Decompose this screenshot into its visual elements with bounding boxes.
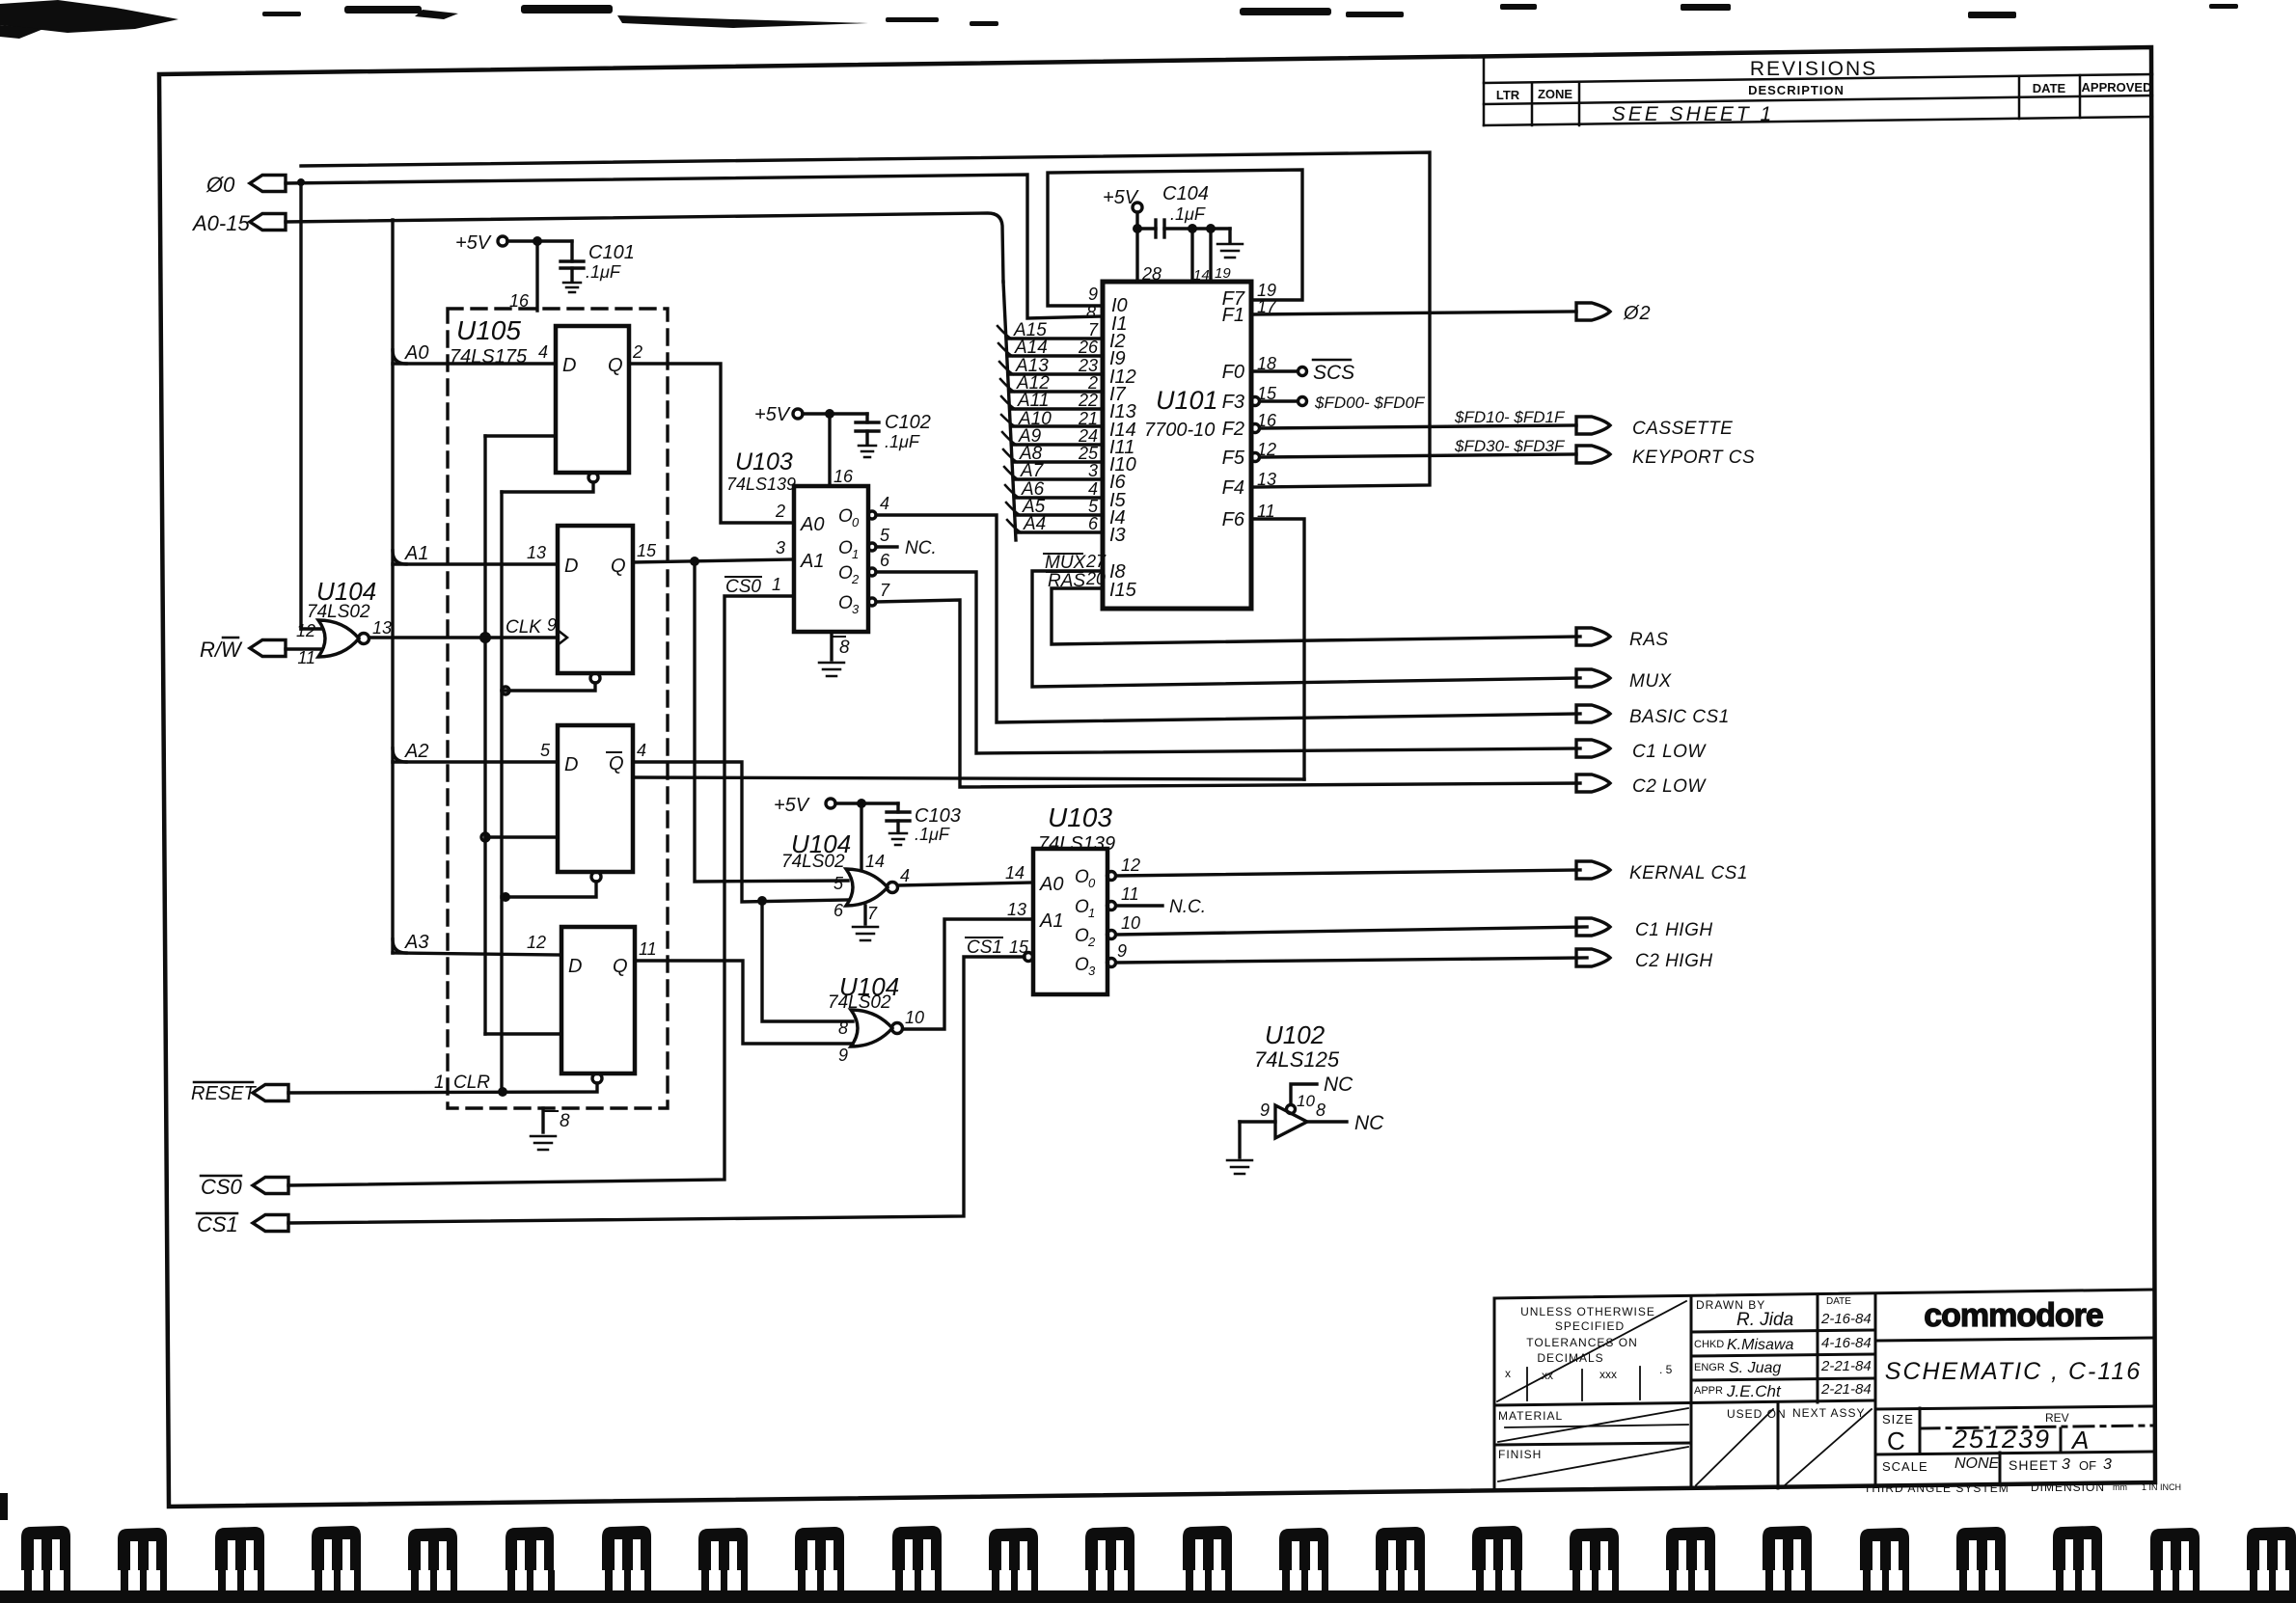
scan artifact: left edge tick [0,1493,8,1520]
ground U103a pin8 [830,632,833,660]
svg-text:A0-15: A0-15 [191,211,250,235]
svg-text:.1μF: .1μF [1170,204,1206,224]
wire +5V to U104 pin14 [860,803,862,869]
svg-text:A1: A1 [404,543,428,564]
svg-text:20: 20 [1085,569,1106,588]
svg-text:+5V: +5V [455,232,492,254]
output flag KERNAL CS1 [1576,861,1610,879]
svg-text:74LS139: 74LS139 [1038,833,1115,855]
svg-text:4: 4 [1088,479,1098,499]
sheet border frame [159,47,2155,1507]
wire A3 to FF4 D [393,953,561,955]
material finish labels [1498,1406,1865,1461]
svg-text:4: 4 [880,494,889,513]
svg-text:. 5: . 5 [1659,1363,1673,1376]
svg-text:REVISIONS: REVISIONS [1750,58,1877,80]
svg-text:commodore: commodore [1924,1297,2103,1334]
clock mark FF2 [559,631,567,644]
output flag RAS [1576,628,1610,645]
svg-text:.1μF: .1μF [915,825,950,844]
node A11 [1001,396,1015,409]
wire CS1 to U103b pin15 [288,957,1025,1223]
svg-text:SEE SHEET 1: SEE SHEET 1 [1612,103,1774,125]
svg-text:13: 13 [1257,470,1276,489]
node A2 [393,748,406,762]
scan artifact: top dashes [262,12,301,16]
wire F6 down [1251,519,1304,779]
wire CLK [369,636,558,638]
wire branch to U104 pin8 [762,901,853,1021]
wire A1 to FF2 D [393,562,558,565]
svg-text:NEXT ASSY: NEXT ASSY [1792,1406,1865,1420]
svg-text:CS1: CS1 [967,937,1002,958]
svg-text:4: 4 [900,866,910,885]
binding clip 16 [1472,1526,1522,1570]
decoder U103a [794,486,868,632]
svg-text:3: 3 [852,602,860,616]
svg-text:CLK: CLK [506,617,542,638]
svg-text:13: 13 [1007,900,1026,919]
svg-text:13: 13 [372,618,392,638]
node A1 [393,551,406,564]
svg-text:SCALE: SCALE [1882,1459,1928,1474]
wire output pin8 NC [1307,1120,1347,1123]
svg-text:0: 0 [1088,876,1096,890]
wire O3 C2 HIGH [1107,959,1116,967]
junction FF3 net to U104 pin8 [757,896,767,906]
wire F1 PHI2 [1251,312,1576,314]
binding clip 13 [1183,1526,1232,1570]
svg-text:8: 8 [1086,303,1096,322]
binding clip 11 [989,1528,1038,1570]
svg-text:21: 21 [1078,409,1098,428]
wire PHI0 to U101 I1 [286,175,1103,318]
svg-text:Q: Q [609,753,624,774]
output flag C1 HIGH [1576,918,1610,936]
input flag A0-15 [250,214,286,231]
binding clip 22 [2053,1526,2102,1570]
svg-text:K.Misawa: K.Misawa [1727,1337,1793,1353]
decoder U103b [1033,849,1107,994]
svg-text:$FD30- $FD3F: $FD30- $FD3F [1454,437,1566,455]
svg-text:5: 5 [880,526,890,545]
svg-text:9: 9 [547,615,557,635]
wire R/W to U104 pin11 [286,647,322,650]
wire address ladder spine [1003,282,1016,540]
svg-text:REV: REV [2045,1411,2069,1425]
bubble rail [500,492,503,1092]
wire FF3 Qbar to U104 pin6 [633,762,848,902]
svg-text:O: O [838,593,853,613]
wire FF1 Q to U103a A0 [629,364,794,523]
svg-text:9: 9 [1117,941,1127,961]
binding clip 24 [2247,1527,2296,1570]
svg-text:I15: I15 [1109,580,1137,601]
svg-text:11: 11 [1121,884,1139,904]
svg-text:C103: C103 [915,805,961,827]
node A15 [998,326,1011,339]
svg-text:6: 6 [1088,514,1099,533]
ground C103 [889,832,907,835]
svg-text:xxx: xxx [1599,1368,1617,1381]
wire A0-15 bus [286,213,1003,282]
output flag CASSETTE [1576,417,1610,434]
svg-text:2: 2 [1087,935,1096,949]
svg-text:NC: NC [1324,1073,1353,1096]
capacitor C103 [896,803,899,812]
wire MUX output [1032,571,1580,687]
wire FF2 bubble to rail [502,683,595,691]
svg-text:9: 9 [1260,1100,1270,1120]
wire +5V to U105 pin16 [535,241,538,311]
svg-text:8: 8 [839,638,850,658]
input flag CS0 [253,1178,288,1194]
svg-text:11: 11 [297,648,315,667]
wire O1 NC [868,543,876,551]
output flag C1 LOW [1576,740,1610,757]
svg-text:A1: A1 [1039,910,1063,932]
svg-text:USED ON: USED ON [1727,1407,1787,1421]
drawn by block [1694,1296,1872,1400]
svg-text:RESET: RESET [191,1083,257,1104]
svg-text:22: 22 [1078,391,1098,410]
svg-text:19: 19 [1215,265,1231,282]
svg-text:LTR: LTR [1496,88,1520,102]
svg-text:24: 24 [1078,426,1098,446]
wire F7 to I0 loop [1048,170,1302,306]
node A8 [1003,449,1017,462]
svg-text:C1 HIGH: C1 HIGH [1635,920,1713,940]
node A7 [1004,467,1018,479]
svg-text:D: D [568,956,582,977]
buffer U102 [1275,1105,1307,1138]
ground U105 pin8 [541,1108,544,1132]
svg-text:MUX: MUX [1629,671,1673,692]
svg-text:SPECIFIED: SPECIFIED [1555,1319,1625,1333]
svg-text:S. Juag: S. Juag [1729,1360,1781,1376]
svg-text:U102: U102 [1265,1020,1326,1049]
wire FF4 clock stub [485,1032,561,1035]
wire RAS output [1052,588,1580,644]
svg-text:Ø0: Ø0 [205,173,235,197]
svg-text:2: 2 [851,572,860,586]
wire F2 CASSETTE [1251,424,1260,433]
wire FF1 bubble to rail [502,482,593,492]
output flag KEYPORT CS [1576,446,1610,463]
svg-text:SHEET: SHEET [2009,1457,2059,1473]
svg-text:0: 0 [852,515,860,530]
node A5 [1006,503,1020,515]
binding clip 2 [118,1528,167,1570]
output flag MUX [1576,669,1610,687]
wire O0 to BASIC CS1 [868,511,876,519]
wire C104 pins 28 14 19 [1135,233,1138,282]
svg-text:$FD00- $FD0F: $FD00- $FD0F [1314,394,1426,412]
svg-text:27: 27 [1085,552,1107,571]
svg-text:74LS125: 74LS125 [1254,1047,1340,1072]
junction CLK [479,632,491,643]
svg-text:O: O [1075,867,1089,887]
wire F0 SCS [1251,369,1298,372]
tolerance note [1505,1305,1673,1382]
binding clip 4 [312,1526,361,1570]
svg-text:O: O [1075,897,1089,917]
input flag RESET [253,1085,288,1101]
wire input pin9 [1240,1120,1275,1123]
svg-text:FINISH: FINISH [1498,1448,1542,1461]
svg-text:CASSETTE: CASSETTE [1632,419,1733,439]
node A14 [998,343,1012,356]
svg-text:NONE: NONE [1954,1455,2000,1472]
svg-text:8: 8 [560,1111,570,1131]
binding clip 23 [2150,1528,2200,1570]
svg-text:5: 5 [1088,497,1099,516]
svg-text:A3: A3 [404,932,428,953]
binding clip 5 [408,1528,457,1570]
svg-text:4-16-84: 4-16-84 [1821,1335,1872,1351]
node A10 [1001,415,1015,426]
svg-text:.1μF: .1μF [885,432,920,451]
binding clip 6 [506,1527,554,1570]
svg-text:9: 9 [838,1046,848,1065]
svg-text:8: 8 [1316,1100,1326,1120]
nor-gate U104d [851,1010,892,1046]
binding clip 15 [1376,1527,1425,1570]
binding clip 12 [1085,1527,1134,1570]
wire O3 to C2 LOW [868,598,876,606]
wire U104b out to U103b A0 [898,883,1033,885]
svg-text:Q: Q [613,956,628,977]
svg-text:O: O [838,538,853,558]
nor-gate U104c [318,620,359,657]
svg-text:$FD10- $FD1F: $FD10- $FD1F [1454,408,1566,426]
svg-text:CHKD: CHKD [1694,1339,1724,1350]
svg-text:KERNAL CS1: KERNAL CS1 [1629,863,1748,883]
output flag C2 LOW [1576,774,1610,792]
capacitor C104 [1137,227,1156,230]
svg-text:J.E.Cht: J.E.Cht [1726,1382,1782,1400]
svg-text:UNLESS OTHERWISE: UNLESS OTHERWISE [1520,1305,1655,1318]
wire +5V to U103a pin16 [828,414,831,486]
svg-text:C: C [1887,1426,1905,1455]
svg-text:6: 6 [880,551,890,570]
wire RESET / CLR [288,1083,597,1093]
wire CS0 to U103a pin1 [288,596,794,1185]
wire PHI2 riser into pin12 [301,627,321,630]
svg-text:Ø2: Ø2 [1623,303,1652,324]
svg-text:4: 4 [637,741,646,760]
svg-text:THIRD ANGLE SYSTEM: THIRD ANGLE SYSTEM [1864,1481,2009,1495]
svg-text:14: 14 [1005,863,1025,883]
svg-text:O: O [1075,955,1089,975]
svg-text:F4: F4 [1222,477,1244,499]
input flag R/W [250,640,286,657]
svg-text:10: 10 [1121,913,1140,933]
binding clip 19 [1763,1526,1812,1570]
node A12 [1000,379,1014,392]
svg-text:+5V: +5V [754,404,791,425]
svg-text:D: D [562,355,576,376]
junction FF2 Q branch [690,557,699,566]
svg-text:CS0: CS0 [201,1175,243,1199]
svg-text:ENGR: ENGR [1694,1362,1725,1373]
wire PHI2 top run (F4 loop) [301,152,1430,487]
svg-text:28: 28 [1141,264,1162,284]
binding clip 17 [1570,1528,1619,1570]
binding clip 1 [21,1526,70,1570]
IC U101 body [1103,282,1251,609]
binding clip 9 [795,1527,844,1570]
svg-text:NC.: NC. [905,538,937,558]
svg-text:CLR: CLR [453,1073,490,1093]
junction CLR rail [498,1087,507,1097]
junction PHI0 riser [297,178,305,186]
output flag PHI2 [1576,303,1610,320]
flip-flop U105c [558,725,633,872]
svg-text:2: 2 [775,502,785,521]
spiral binding strip [0,1526,2296,1603]
svg-text:7700-10: 7700-10 [1144,420,1215,441]
svg-text:7: 7 [880,581,890,600]
svg-text:TOLERANCES ON: TOLERANCES ON [1526,1336,1637,1349]
ground U104b pin7 [863,906,866,924]
svg-text:RAS: RAS [1629,630,1669,650]
output flag BASIC CS1 [1576,705,1610,722]
svg-text:Q: Q [608,355,623,376]
input flag CS1 [253,1215,288,1232]
wire FF4 Q to U104 pin9 [635,961,853,1044]
binding clip 10 [892,1526,942,1570]
U105 dashed outline [448,309,668,1108]
svg-text:KEYPORT CS: KEYPORT CS [1632,448,1755,468]
svg-text:14: 14 [1193,267,1210,284]
svg-text:14: 14 [865,852,885,871]
wire O1 NC [1107,902,1116,910]
svg-text:3: 3 [2103,1456,2112,1473]
flip-flop U105b [558,526,633,673]
svg-text:1: 1 [772,575,781,594]
svg-text:APPROVED: APPROVED [2082,80,2152,95]
svg-text:12: 12 [1121,856,1140,875]
svg-text:4: 4 [538,342,548,362]
svg-text:C101: C101 [588,242,635,263]
capacitor C102 [865,414,868,422]
svg-text:12: 12 [296,621,315,640]
svg-text:10: 10 [1297,1092,1315,1110]
svg-text:SIZE: SIZE [1882,1412,1914,1426]
svg-text:A7: A7 [1020,461,1045,481]
svg-text:7: 7 [1088,320,1099,340]
size and number row [1864,1411,2181,1495]
svg-text:C2 HIGH: C2 HIGH [1635,951,1713,971]
svg-text:8: 8 [838,1019,848,1038]
svg-text:13: 13 [527,543,546,562]
svg-text:ZONE: ZONE [1538,87,1572,101]
bus riser A0-A3 [391,220,394,953]
svg-text:CS0: CS0 [725,577,761,597]
wire enable pin10 NC [1287,1105,1296,1114]
svg-text:A: A [2070,1426,2089,1454]
svg-text:10: 10 [905,1008,924,1027]
node A3 [393,939,406,953]
wire O2 to C1 LOW [868,568,876,576]
svg-text:A4: A4 [1023,514,1046,534]
svg-text:11: 11 [639,939,657,959]
svg-text:1: 1 [434,1073,445,1093]
svg-text:3: 3 [2062,1456,2070,1473]
wire F3 FD00 [1251,397,1260,406]
node A4 [1007,520,1021,532]
svg-text:74LS02: 74LS02 [781,852,845,872]
ground C101 [563,282,581,285]
svg-text:A0: A0 [404,342,428,364]
svg-text:7: 7 [867,904,878,923]
svg-text:A11: A11 [1017,391,1049,411]
svg-text:U105: U105 [456,315,521,345]
svg-text:OF: OF [2079,1458,2096,1473]
svg-text:251239: 251239 [1952,1425,2051,1454]
svg-text:F5: F5 [1222,448,1245,469]
svg-text:12: 12 [527,933,546,952]
binding clip 20 [1860,1528,1909,1570]
svg-text:NC: NC [1354,1112,1384,1134]
svg-text:SCS: SCS [1313,362,1354,384]
svg-text:DESCRIPTION: DESCRIPTION [1748,83,1845,97]
output flag C2 HIGH [1576,949,1610,966]
wire U104d out to U103b A1 [903,919,1033,1029]
svg-text:U103: U103 [735,448,793,475]
node A13 [999,362,1013,374]
svg-text:9: 9 [1088,285,1098,304]
junction FF3 clock stub [481,833,489,841]
binding clip 18 [1666,1527,1715,1570]
svg-text:R/W: R/W [200,638,243,662]
revisions table frame [1484,56,2152,125]
svg-text:APPR: APPR [1694,1385,1723,1397]
svg-text:D: D [564,556,578,577]
svg-text:I3: I3 [1109,525,1126,546]
input flag PHI0 [250,176,286,192]
svg-text:F3: F3 [1222,392,1244,413]
svg-text:16: 16 [834,467,854,486]
node A9 [1002,432,1016,445]
svg-text:SCHEMATIC , C-116: SCHEMATIC , C-116 [1885,1358,2142,1385]
wire F5 KEYPORT [1251,453,1260,462]
wire PHI0 riser down to U104 pin12 [299,182,302,629]
svg-text:R. Jida: R. Jida [1736,1310,1793,1330]
wire A0 to FF1 D [393,362,556,365]
ground C104 [1228,229,1231,242]
wire FF3 clock stub [485,835,558,838]
svg-text:26: 26 [1078,338,1099,357]
svg-text:CS1: CS1 [197,1212,238,1236]
svg-text:C104: C104 [1162,183,1209,204]
svg-text:mm: mm [2113,1482,2127,1492]
wire FF2 Q to U103a A1 [633,559,794,562]
svg-text:C102: C102 [885,412,931,433]
svg-text:3: 3 [776,538,785,557]
title block frame [1494,1290,2152,1490]
svg-text:A1: A1 [800,551,824,572]
svg-text:A14: A14 [1014,338,1048,358]
svg-text:3: 3 [1088,461,1098,480]
binding clip 7 [602,1526,651,1570]
svg-text:.1μF: .1μF [586,262,621,282]
wire FF1 clock stub [485,434,556,437]
svg-text:C1 LOW: C1 LOW [1632,742,1707,762]
binding clip 8 [698,1528,748,1570]
svg-text:2-21-84: 2-21-84 [1820,1381,1872,1398]
